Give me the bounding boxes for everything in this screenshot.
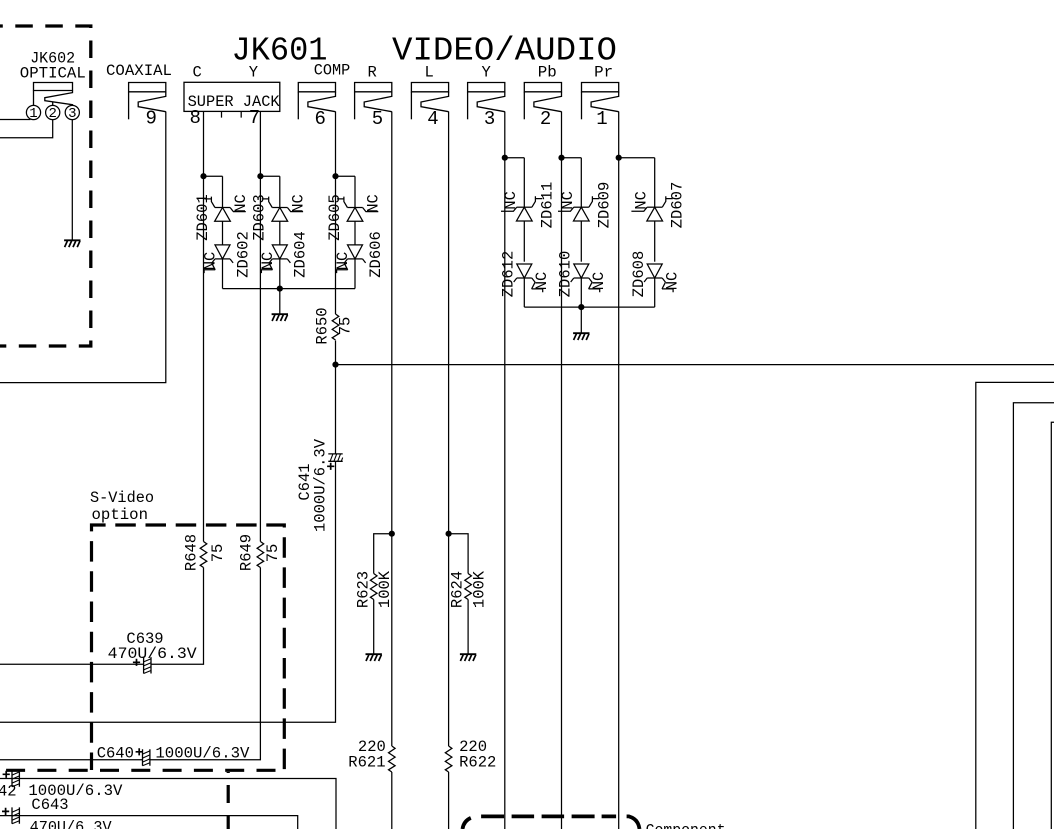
resistor R649 xyxy=(257,542,264,568)
capacitor C639 xyxy=(144,657,151,673)
wire COMP signal R650 to junction xyxy=(335,341,337,365)
svg-text:NC: NC xyxy=(533,272,551,291)
svg-text:ZD606: ZD606 xyxy=(367,231,385,278)
svg-text:Pr: Pr xyxy=(594,64,613,82)
wire ZD601 to ZD602 xyxy=(222,221,224,245)
ground (left zener bus) xyxy=(272,314,288,321)
dashed divider inside bottom-left enclosure xyxy=(227,772,230,829)
wire L signal jack4 down xyxy=(448,112,450,747)
JK602 pin 1 circle xyxy=(26,105,40,119)
svg-text:R650: R650 xyxy=(313,307,331,344)
polarity + (C642) xyxy=(3,771,10,778)
jack 9 COAXIAL symbol xyxy=(129,83,166,120)
svg-text:Y: Y xyxy=(249,64,259,82)
svg-text:NC: NC xyxy=(365,194,383,213)
wire C signal jack8 down to R648 xyxy=(203,111,205,541)
svg-text:NC: NC xyxy=(502,191,520,210)
svg-text:COMP: COMP xyxy=(314,62,351,80)
wire right zener ground bus xyxy=(524,306,654,308)
svg-text:1: 1 xyxy=(29,106,37,122)
wire branch to ZD607 xyxy=(619,158,655,208)
dashed box: bottom-left option enclosure xyxy=(6,769,287,772)
svg-text:R649: R649 xyxy=(238,534,256,571)
svg-text:R621: R621 xyxy=(348,754,385,772)
jack 6 COMP symbol xyxy=(298,83,335,120)
svg-text:Component: Component xyxy=(646,822,726,829)
jack 2 Pb symbol xyxy=(524,83,561,120)
wire Pr signal jack1 down to bottom xyxy=(618,112,620,829)
dashed box: JK602 optical option enclosure xyxy=(0,26,91,346)
polarity + (C640) xyxy=(136,748,143,755)
zener diode ZD612 xyxy=(514,264,543,292)
svg-text:75: 75 xyxy=(337,317,355,336)
jack 5 R symbol xyxy=(355,83,392,120)
svg-text:R624: R624 xyxy=(448,571,466,608)
svg-text:ZD607: ZD607 xyxy=(669,182,687,229)
svg-text:NC: NC xyxy=(259,252,277,271)
zener diode ZD608 xyxy=(644,264,673,292)
wire COMP signal junction through C641 xyxy=(0,365,336,723)
resistor R623 xyxy=(370,574,377,600)
zener diode ZD604 xyxy=(261,245,290,273)
svg-text:NC: NC xyxy=(202,252,220,271)
zener diode ZD603 xyxy=(262,197,303,222)
wire JK602 pin1 to left edge xyxy=(0,119,30,121)
wire ZD604 to ground bus xyxy=(279,259,281,289)
wire branch to ZD601 xyxy=(204,176,223,207)
wire C640 line to left edge xyxy=(0,759,143,761)
wire Pb signal jack2 down to bottom xyxy=(561,112,563,829)
polarity + (C643) xyxy=(2,808,9,815)
jack 3 Y symbol xyxy=(468,83,505,120)
svg-text:75: 75 xyxy=(264,544,282,563)
svg-text:3: 3 xyxy=(484,108,495,130)
junction node ZD611 branch xyxy=(502,155,508,161)
capacitor C643 xyxy=(12,807,19,823)
svg-text:NC: NC xyxy=(232,194,250,213)
wire branch to ZD605 xyxy=(336,176,356,207)
wire JK602 pin3 to ground xyxy=(71,120,73,240)
ground (JK602 pin3) xyxy=(64,240,80,247)
wire ZD605 to ZD606 xyxy=(354,221,356,245)
solid box B outline xyxy=(0,816,298,829)
svg-text:1000U/6.3V: 1000U/6.3V xyxy=(155,745,250,763)
wire ZD602 to ground bus xyxy=(222,259,224,289)
svg-text:2: 2 xyxy=(48,106,56,122)
svg-text:ZD612: ZD612 xyxy=(500,251,518,298)
svg-text:1: 1 xyxy=(596,108,607,130)
zener diode ZD606 xyxy=(337,245,366,273)
svg-text:NC: NC xyxy=(289,194,307,213)
unused pin stubs below SUPER JACK xyxy=(222,111,242,117)
wire JK602 pin2 to left edge xyxy=(0,120,53,138)
svg-text:R622: R622 xyxy=(459,754,496,772)
resistor R622 xyxy=(445,746,452,772)
svg-text:C643: C643 xyxy=(31,796,68,814)
zener diode ZD601 xyxy=(205,197,246,222)
zener diode ZD602 xyxy=(204,245,233,273)
module box middle xyxy=(1013,403,1054,829)
svg-text:7: 7 xyxy=(249,107,260,129)
ground (right zener bus) xyxy=(573,333,589,340)
svg-text:9: 9 xyxy=(145,108,156,130)
wire ZD611 to ZD612 xyxy=(523,221,525,262)
connector SUPER JACK box xyxy=(184,82,280,111)
svg-text:3: 3 xyxy=(68,106,76,122)
dashed box: S-Video option enclosure xyxy=(92,525,285,770)
wire ZD606 to ground bus xyxy=(354,259,356,289)
svg-text:470U/6.3V: 470U/6.3V xyxy=(30,819,113,829)
zener diode ZD607 xyxy=(631,196,672,221)
junction node ZD603 branch xyxy=(257,173,263,179)
svg-text:C640: C640 xyxy=(97,745,134,763)
wire branch to ZD609 xyxy=(562,158,582,208)
jack 1 Pr symbol xyxy=(582,83,619,120)
svg-text:S-Video: S-Video xyxy=(90,489,154,507)
module box inner xyxy=(1051,422,1054,829)
svg-text:8: 8 xyxy=(189,107,200,129)
svg-text:ZD603: ZD603 xyxy=(251,194,269,241)
svg-text:1000U/6.3V: 1000U/6.3V xyxy=(311,438,329,532)
wire ZD608 to ground bus xyxy=(654,278,656,307)
module box outer xyxy=(976,382,1054,829)
svg-text:470U/6.3V: 470U/6.3V xyxy=(108,645,198,663)
svg-text:COAXIAL: COAXIAL xyxy=(106,62,172,80)
svg-text:ZD611: ZD611 xyxy=(538,182,556,229)
junction right bus ground node xyxy=(578,304,584,310)
capacitor C641 xyxy=(328,454,342,461)
svg-text:ZD604: ZD604 xyxy=(292,231,310,278)
svg-text:NC: NC xyxy=(334,252,352,271)
junction COMP output node xyxy=(332,362,338,368)
wire ZD612 to ground bus xyxy=(523,278,525,307)
wire COAXIAL signal to left edge xyxy=(0,112,166,383)
wire Y signal jack7 down to R649 xyxy=(259,111,261,541)
JK602 pin 2 circle xyxy=(46,105,60,119)
junction node ZD601 branch xyxy=(200,173,206,179)
polarity + (C641) xyxy=(327,463,334,470)
resistor R624 xyxy=(465,574,472,600)
wire R623 branch xyxy=(374,534,392,574)
wire branch to ZD603 xyxy=(260,176,279,207)
zener diode ZD605 xyxy=(337,197,378,222)
svg-text:ZD602: ZD602 xyxy=(234,231,252,278)
junction R623 tap node xyxy=(389,531,395,537)
zener diode ZD610 xyxy=(571,264,600,292)
junction left bus ground node xyxy=(277,286,283,292)
wire L signal below R622 to bottom xyxy=(448,772,450,829)
wire C signal R648 to C639 line xyxy=(151,568,204,665)
ground (R623) xyxy=(366,654,382,661)
svg-text:100K: 100K xyxy=(376,570,394,608)
svg-text:ZD609: ZD609 xyxy=(595,182,613,229)
svg-text:R: R xyxy=(368,64,377,82)
solid box A outline xyxy=(0,779,336,829)
wire COMP signal jack6 down to R650 xyxy=(335,112,337,315)
svg-text:OPTICAL: OPTICAL xyxy=(20,65,86,83)
wire left zener ground bus xyxy=(223,288,356,290)
svg-text:ZD605: ZD605 xyxy=(326,194,344,241)
svg-text:2: 2 xyxy=(540,108,551,130)
wire branch to ZD611 xyxy=(505,158,525,208)
wire left bus ground stem xyxy=(279,289,281,314)
resistor R650 xyxy=(332,314,339,340)
svg-text:4: 4 xyxy=(427,108,438,130)
zener diode ZD611 xyxy=(501,196,542,221)
svg-text:option: option xyxy=(92,506,149,524)
jack 4 L symbol xyxy=(411,83,448,120)
junction node ZD609 branch xyxy=(558,155,564,161)
svg-text:R623: R623 xyxy=(354,571,372,608)
svg-text:SUPER JACK: SUPER JACK xyxy=(188,93,281,111)
wire Y signal R649 to C640 line xyxy=(150,568,261,760)
resistor R621 xyxy=(389,746,396,772)
ground (R624) xyxy=(460,654,476,661)
svg-text:ZD601: ZD601 xyxy=(194,194,212,241)
wire R624 branch xyxy=(449,534,469,574)
svg-text:Pb: Pb xyxy=(538,64,557,82)
wire Y component signal jack3 down to bottom xyxy=(504,112,506,829)
capacitor C640 xyxy=(143,749,150,765)
zener diode ZD609 xyxy=(558,196,599,221)
svg-text:5: 5 xyxy=(372,108,383,130)
polarity + (C639) xyxy=(133,659,140,666)
svg-text:L: L xyxy=(425,64,434,82)
svg-text:NC: NC xyxy=(559,191,577,210)
junction node ZD607 branch xyxy=(616,155,622,161)
wire R signal below R621 to bottom xyxy=(391,772,393,829)
wire C639 line to left edge xyxy=(0,663,144,665)
svg-text:ZD608: ZD608 xyxy=(630,251,648,298)
wire R623 to ground xyxy=(373,600,375,654)
svg-text:C: C xyxy=(193,64,202,82)
wire ZD609 to ZD610 xyxy=(580,221,582,262)
wire ZD607 to ZD608 xyxy=(654,221,656,262)
wire COMP output line to right edge xyxy=(336,364,1054,366)
connector JK602 jack symbol xyxy=(34,83,73,106)
svg-text:42: 42 xyxy=(0,782,17,800)
wire ZD603 to ZD604 xyxy=(279,221,281,245)
wire right bus ground stem xyxy=(580,307,582,333)
resistor R648 xyxy=(200,542,207,568)
svg-text:ZD610: ZD610 xyxy=(557,251,575,298)
svg-text:NC: NC xyxy=(590,272,608,291)
wire R624 to ground xyxy=(467,600,469,654)
svg-text:R648: R648 xyxy=(182,534,200,571)
wire R signal jack5 down xyxy=(391,112,393,747)
svg-text:75: 75 xyxy=(209,544,227,563)
dashed rounded box: Component group xyxy=(463,816,640,829)
svg-text:Y: Y xyxy=(482,64,492,82)
svg-text:6: 6 xyxy=(314,108,325,130)
svg-text:NC: NC xyxy=(633,191,651,210)
junction node ZD605 branch xyxy=(332,173,338,179)
wire ZD610 to ground bus xyxy=(580,278,582,307)
JK602 pin 3 circle xyxy=(65,105,79,119)
capacitor C642 xyxy=(12,770,19,786)
svg-text:100K: 100K xyxy=(471,570,489,608)
junction R624 tap node xyxy=(446,531,452,537)
svg-text:NC: NC xyxy=(664,272,682,291)
